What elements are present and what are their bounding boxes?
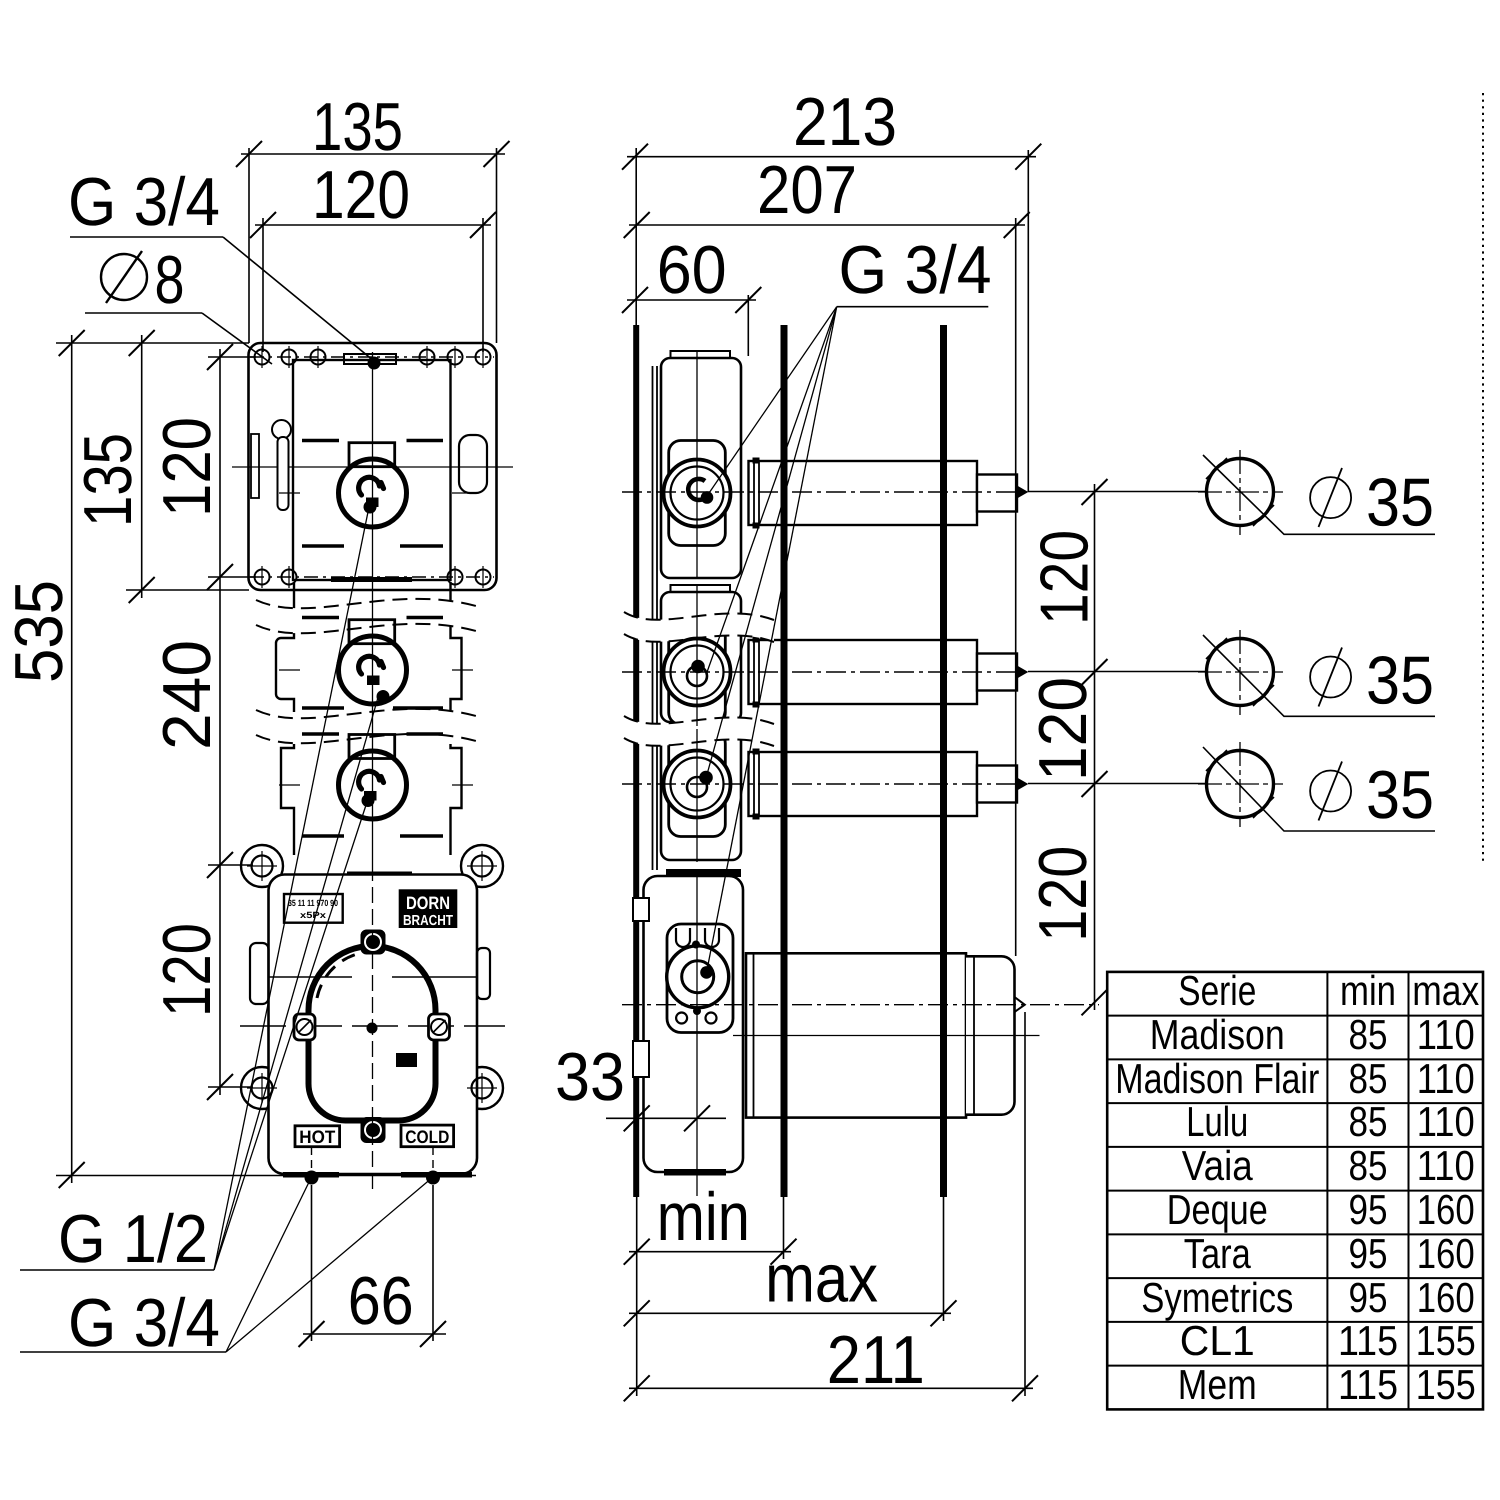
svg-text:85: 85 [1349,1098,1388,1145]
svg-text:min: min [657,1179,750,1255]
svg-text:95: 95 [1349,1230,1388,1277]
svg-text:35 11 11 970 90: 35 11 11 970 90 [288,898,338,908]
svg-text:95: 95 [1349,1274,1388,1321]
svg-text:60: 60 [657,232,727,308]
svg-text:115: 115 [1338,1317,1398,1364]
svg-text:min: min [1340,967,1396,1014]
svg-text:Symetrics: Symetrics [1141,1274,1293,1321]
svg-text:Mem: Mem [1178,1361,1257,1408]
svg-text:35: 35 [1366,642,1434,718]
svg-text:Madison Flair: Madison Flair [1115,1055,1319,1102]
svg-text:HOT: HOT [299,1127,335,1147]
svg-text:G 3/4: G 3/4 [839,232,992,308]
svg-text:35: 35 [1366,757,1434,833]
svg-text:Vaia: Vaia [1182,1142,1254,1189]
svg-text:160: 160 [1417,1230,1475,1277]
svg-text:BRACHT: BRACHT [403,913,453,929]
svg-text:120: 120 [1025,677,1101,781]
svg-text:Tara: Tara [1184,1230,1252,1277]
svg-text:120: 120 [1027,530,1103,625]
svg-text:8: 8 [155,242,185,318]
svg-text:Serie: Serie [1178,967,1256,1014]
svg-text:CL1: CL1 [1180,1317,1255,1364]
svg-text:120: 120 [149,923,225,1017]
svg-text:120: 120 [312,157,410,233]
svg-text:66: 66 [348,1263,414,1339]
svg-text:135: 135 [70,433,146,527]
svg-text:35: 35 [1366,465,1434,541]
svg-text:110: 110 [1417,1011,1475,1058]
svg-text:207: 207 [757,152,857,228]
svg-text:240: 240 [149,640,225,750]
svg-text:155: 155 [1416,1317,1476,1364]
svg-text:95: 95 [1349,1186,1388,1233]
svg-text:max: max [1412,967,1479,1014]
svg-text:85: 85 [1349,1011,1388,1058]
svg-text:155: 155 [1416,1361,1476,1408]
svg-text:x5Px: x5Px [300,910,326,920]
svg-text:Deque: Deque [1167,1186,1268,1233]
svg-text:211: 211 [827,1322,925,1398]
svg-text:535: 535 [1,580,77,683]
svg-text:Madison: Madison [1150,1011,1285,1058]
svg-text:Lulu: Lulu [1186,1098,1248,1145]
svg-text:33: 33 [555,1039,625,1115]
svg-text:135: 135 [312,89,403,165]
svg-text:max: max [765,1241,878,1317]
svg-text:120: 120 [1025,846,1101,942]
svg-text:160: 160 [1417,1274,1475,1321]
svg-text:DORN: DORN [406,893,450,913]
svg-text:110: 110 [1417,1098,1475,1145]
svg-text:COLD: COLD [405,1127,449,1147]
svg-text:85: 85 [1349,1142,1388,1189]
svg-text:213: 213 [793,84,897,160]
svg-text:G 3/4: G 3/4 [68,164,220,240]
svg-text:160: 160 [1417,1186,1475,1233]
svg-text:85: 85 [1349,1055,1388,1102]
svg-text:110: 110 [1417,1055,1475,1102]
svg-text:120: 120 [149,417,225,517]
svg-text:G 3/4: G 3/4 [68,1285,220,1361]
svg-text:110: 110 [1417,1142,1475,1189]
svg-text:G 1/2: G 1/2 [58,1201,208,1277]
svg-text:115: 115 [1338,1361,1398,1408]
